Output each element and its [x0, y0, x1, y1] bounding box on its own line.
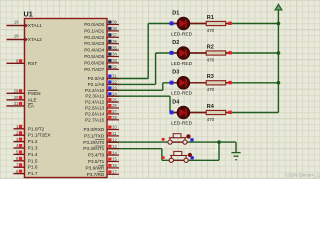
svg-text:R4: R4 [207, 104, 215, 110]
svg-text:P2.7/A15: P2.7/A15 [85, 117, 105, 122]
svg-text:D1: D1 [172, 10, 179, 16]
svg-text:35: 35 [112, 45, 117, 50]
svg-text:CSDN @return_12: CSDN @return_12 [285, 172, 320, 177]
svg-text:470: 470 [207, 87, 215, 92]
svg-text:P1.0/T2: P1.0/T2 [28, 126, 45, 131]
svg-text:470: 470 [207, 28, 215, 33]
svg-text:LED-RED: LED-RED [171, 120, 193, 126]
svg-text:P1.6: P1.6 [28, 165, 38, 170]
svg-text:34: 34 [112, 52, 117, 57]
svg-text:11: 11 [112, 131, 117, 136]
svg-text:P3.4/T0: P3.4/T0 [88, 153, 105, 158]
svg-text:18: 18 [14, 34, 19, 39]
svg-text:D4: D4 [172, 99, 180, 105]
svg-text:470: 470 [207, 117, 215, 122]
svg-text:470: 470 [207, 57, 215, 62]
svg-text:P3.0/RXD: P3.0/RXD [83, 127, 104, 132]
svg-text:P0.7/AD7: P0.7/AD7 [84, 67, 104, 72]
svg-text:PSEN: PSEN [28, 91, 41, 96]
svg-text:14: 14 [112, 150, 117, 155]
svg-text:23: 23 [112, 86, 117, 91]
svg-text:P0.4/AD4: P0.4/AD4 [84, 48, 104, 53]
svg-text:19: 19 [14, 20, 19, 25]
svg-text:P0.2/AD2: P0.2/AD2 [84, 35, 104, 40]
svg-text:25: 25 [112, 97, 117, 102]
svg-text:P2.2/A10: P2.2/A10 [85, 88, 105, 93]
svg-text:P2.1/A9: P2.1/A9 [88, 82, 105, 87]
svg-text:P2.3/A11: P2.3/A11 [85, 94, 104, 99]
svg-text:R2: R2 [207, 44, 214, 50]
svg-text:D3: D3 [172, 70, 179, 76]
svg-text:37: 37 [112, 33, 117, 38]
svg-text:P3.6/WR: P3.6/WR [86, 165, 105, 170]
svg-text:17: 17 [112, 170, 117, 175]
svg-text:P3.7/RD: P3.7/RD [87, 172, 105, 177]
svg-text:P0.1/AD1: P0.1/AD1 [84, 28, 104, 33]
svg-text:D2: D2 [172, 40, 179, 46]
svg-text:33: 33 [112, 58, 117, 63]
svg-text:XTAL2: XTAL2 [28, 37, 42, 42]
svg-text:P2.0/A8: P2.0/A8 [88, 76, 105, 81]
svg-text:P0.0/AD0: P0.0/AD0 [84, 22, 104, 27]
svg-text:P3.2/INT0: P3.2/INT0 [83, 140, 104, 145]
svg-text:39: 39 [112, 20, 117, 25]
svg-text:P0.6/AD6: P0.6/AD6 [84, 60, 104, 65]
svg-text:30: 30 [14, 95, 19, 100]
svg-text:38: 38 [112, 26, 117, 31]
svg-text:15: 15 [112, 157, 117, 162]
svg-text:P2.4/A12: P2.4/A12 [85, 100, 105, 105]
svg-text:13: 13 [112, 144, 117, 149]
svg-text:P1.2: P1.2 [28, 139, 38, 144]
svg-text:P1.7: P1.7 [28, 171, 38, 176]
svg-text:24: 24 [112, 91, 117, 96]
svg-text:R3: R3 [207, 74, 214, 80]
svg-text:26: 26 [112, 103, 117, 108]
svg-text:XTAL1: XTAL1 [28, 23, 42, 28]
svg-text:P2.5/A13: P2.5/A13 [85, 106, 105, 111]
svg-text:28: 28 [112, 115, 117, 120]
svg-text:P2.6/A14: P2.6/A14 [85, 111, 105, 116]
svg-text:U1: U1 [24, 9, 33, 18]
svg-text:31: 31 [14, 101, 19, 106]
svg-text:P1.1/T2EX: P1.1/T2EX [28, 133, 52, 138]
svg-text:21: 21 [112, 74, 117, 79]
svg-text:12: 12 [112, 138, 117, 143]
svg-text:P3.3/INT1: P3.3/INT1 [83, 146, 104, 151]
svg-text:P1.3: P1.3 [28, 146, 38, 151]
svg-text:29: 29 [14, 89, 19, 94]
svg-text:LED-RED: LED-RED [171, 91, 193, 97]
svg-text:ALE: ALE [28, 97, 37, 102]
svg-text:EA: EA [28, 103, 35, 108]
svg-text:P3.5/T1: P3.5/T1 [88, 159, 105, 164]
svg-text:P3.1/TXD: P3.1/TXD [84, 133, 105, 138]
svg-text:P0.3/AD3: P0.3/AD3 [84, 41, 104, 46]
svg-text:R1: R1 [207, 15, 214, 21]
svg-text:36: 36 [112, 39, 117, 44]
svg-text:P1.4: P1.4 [28, 152, 38, 157]
svg-text:P1.5: P1.5 [28, 158, 38, 163]
svg-text:22: 22 [112, 80, 117, 85]
svg-text:RST: RST [28, 61, 38, 66]
svg-text:LED-RED: LED-RED [171, 31, 193, 37]
svg-text:P0.5/AD5: P0.5/AD5 [84, 54, 104, 59]
svg-text:LED-RED: LED-RED [171, 61, 193, 67]
svg-text:10: 10 [112, 125, 117, 130]
svg-text:16: 16 [112, 163, 117, 168]
svg-text:32: 32 [112, 65, 117, 70]
svg-text:27: 27 [112, 109, 117, 114]
